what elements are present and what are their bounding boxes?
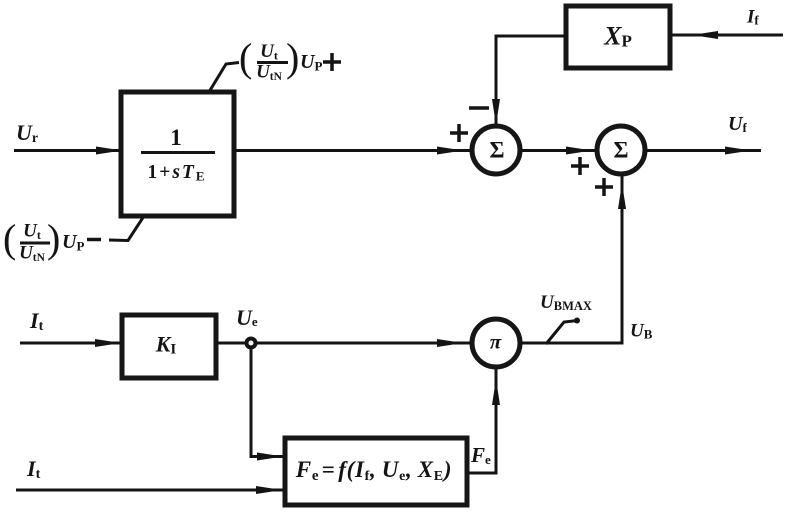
block Fe function [285, 438, 467, 505]
summer S1 [472, 126, 520, 174]
svg-text:π: π [490, 330, 502, 354]
limit mark UBMAX on PI output [546, 321, 578, 345]
arrowhead into PI from below [492, 379, 500, 405]
svg-text:): ) [47, 216, 60, 261]
plus sign at S1 left input [450, 131, 468, 135]
plus sign at S2 bottom input [595, 185, 613, 189]
svg-text:Fe = f(If, Ue, XE): Fe = f(If, Ue, XE) [295, 457, 452, 484]
plus sign at S2 left input [571, 164, 589, 168]
arrowhead into S1 from top [492, 99, 500, 125]
block G1 1/(1+sTE) [121, 92, 234, 216]
svg-text:1: 1 [170, 125, 182, 150]
svg-text:Σ: Σ [489, 138, 504, 163]
block KI [122, 315, 216, 378]
label upper limit fraction bar [257, 61, 288, 64]
limit mark lower on G1 [109, 216, 144, 241]
wire S2 output Uf [645, 149, 761, 152]
svg-text:): ) [286, 35, 299, 80]
arrowhead into KI [95, 339, 121, 347]
wire S1 to S2 [520, 149, 598, 152]
wire Fe output up to PI [467, 367, 496, 473]
arrowhead into Fe block (It input) [256, 486, 282, 494]
arrowhead into block G1 [96, 147, 122, 155]
minus sign at S1 top input [469, 106, 489, 110]
wire If input to XP [670, 34, 783, 37]
label upper limit plus sign [323, 60, 341, 64]
node Ue junction [247, 339, 256, 348]
wire It input to KI [20, 342, 122, 345]
wire Ur input [14, 149, 121, 152]
svg-text:Σ: Σ [613, 138, 628, 163]
arrowhead into Fe block (Ue input) [257, 453, 283, 461]
limit mark upper on G1 [209, 63, 239, 93]
arrowhead into PI [437, 339, 463, 347]
summer S2 [597, 126, 645, 174]
wire XP output to summer S1 (left then down) [496, 36, 566, 127]
wire KI to multiplier PI [216, 342, 473, 345]
label lower limit fraction bar [20, 242, 50, 245]
block XP [566, 6, 670, 68]
arrowhead into S2 [566, 147, 592, 155]
svg-text:(: ( [3, 216, 16, 261]
wire It bottom input to Fe block [16, 489, 285, 492]
svg-text:(: ( [239, 35, 252, 80]
value label fraction bar [141, 151, 215, 154]
arrowhead into XP (pointing left) [692, 31, 718, 39]
node Ue branch down to Fe block [251, 347, 284, 457]
wire G1 to summer S1 [234, 149, 473, 152]
arrowhead into S2 from below [618, 183, 626, 209]
multiplier PI [472, 319, 520, 367]
arrowhead into summer S1 [437, 147, 463, 155]
wire PI output to S2 (right then up) UB [520, 175, 622, 343]
arrowhead Uf output [725, 147, 751, 155]
label lower limit minus sign [87, 238, 101, 242]
